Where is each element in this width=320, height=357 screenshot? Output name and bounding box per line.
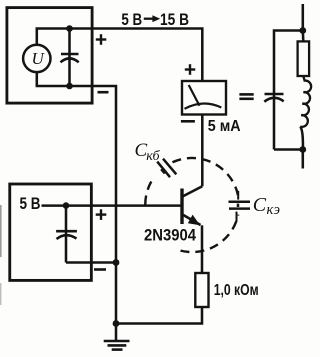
wire: meter bottom to collector <box>201 115 204 187</box>
wire: emitter down to resistor <box>201 225 204 273</box>
svg-text:кэ: кэ <box>267 202 281 218</box>
inductor L1 (tank) <box>300 76 311 127</box>
box: supply enclosure U (top-left) <box>7 8 92 104</box>
svg-text:1,0 кОм: 1,0 кОм <box>214 282 259 299</box>
wire: inductor to tank bottom node <box>300 127 303 150</box>
wire: - rail from supply down <box>70 86 117 324</box>
wire: bias minus to rail <box>66 261 116 264</box>
equals sign <box>239 94 253 98</box>
transistor Q1 emitter lead with arrow <box>183 215 201 226</box>
svg-text:5 В: 5 В <box>121 10 142 29</box>
wire: cap branch bottom to tank bottom node <box>274 148 303 151</box>
svg-text:2N3904: 2N3904 <box>144 226 196 245</box>
meter scale arc <box>185 104 222 109</box>
svg-text:кб: кб <box>146 149 160 164</box>
svg-text:15 В: 15 В <box>160 10 189 29</box>
plus sign (bias supply) <box>96 209 107 220</box>
minus sign (meter) <box>181 120 195 123</box>
node: tank top <box>299 27 306 34</box>
box: bias supply enclosure 5V (bottom-left) <box>10 184 92 280</box>
wire: U bottom to bottom node <box>37 72 70 86</box>
tank: bottom stub wire <box>302 150 305 169</box>
wire: U top to top node <box>37 29 70 45</box>
wire: resistor to ground rail <box>116 307 202 324</box>
meter needle <box>189 85 200 106</box>
wire: + rail from supply to meter <box>70 29 203 82</box>
capacitor Ckb plates (collector-base) <box>157 159 176 178</box>
node: minus rail junction <box>113 259 120 266</box>
minus sign (bias supply) <box>94 268 106 271</box>
resistor R1 1.0 kOhm <box>195 273 208 307</box>
transistor Q1 base bar <box>180 189 183 225</box>
tank: top stub wire <box>302 4 305 31</box>
capacitor C3 (tank) <box>265 93 284 96</box>
plus sign (supply output) <box>96 34 107 45</box>
meter M1 <box>182 81 226 115</box>
node: bias node <box>63 202 70 209</box>
node: tank bottom <box>299 146 306 153</box>
node: ground junction <box>113 320 120 327</box>
wire: bias supply to base <box>42 204 183 207</box>
svg-text:C: C <box>253 194 267 216</box>
capacitor C2 (bias filter) <box>65 206 68 232</box>
wire: tank top to cap branch <box>274 31 303 94</box>
node: bottom node in supply box <box>66 83 73 90</box>
resistor R2 (tank) <box>298 41 310 76</box>
ground symbol <box>115 324 118 342</box>
wire: tank top node down to resistor <box>302 31 305 42</box>
minus sign (supply output) <box>98 91 109 94</box>
transistor Q1 collector lead <box>183 186 203 196</box>
svg-text:5 мА: 5 мА <box>208 118 241 135</box>
capacitor Cke plates (collector-emitter) <box>229 191 251 222</box>
node: top node in supply box <box>66 25 73 32</box>
svg-text:5 В: 5 В <box>20 194 41 213</box>
scan artifact left edge <box>0 205 2 257</box>
plus sign (meter) <box>185 64 196 75</box>
svg-text:U: U <box>32 49 46 68</box>
dashed feedback circle around transistor <box>145 158 238 252</box>
capacitor C1 (inside top box) <box>68 29 71 55</box>
source U1 circle <box>23 45 50 72</box>
